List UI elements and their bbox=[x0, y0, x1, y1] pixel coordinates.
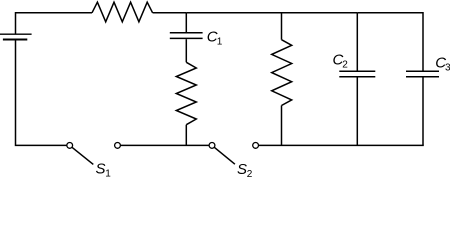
capacitor C1 top plate bbox=[170, 32, 203, 34]
wire: capacitor C2 to bottom rail bbox=[356, 77, 358, 145]
switch S1 fixed contact circle bbox=[67, 143, 73, 149]
svg-text:3: 3 bbox=[445, 63, 450, 74]
capacitor C3 top plate bbox=[406, 70, 439, 72]
wire: battery positive up to top-left corner and right to resistor R1 bbox=[16, 13, 93, 34]
label S2 bbox=[237, 161, 253, 180]
resistor R1 (top horizontal) bbox=[92, 2, 153, 22]
switch S2 blade (open) bbox=[214, 147, 235, 164]
wire: switch S2 terminal to bottom-right corner (bottom rail with R2 and C2 junctions) bbox=[259, 144, 424, 146]
switch S2 fixed contact circle bbox=[209, 143, 215, 149]
wire: node A down to capacitor C1 bbox=[185, 13, 187, 32]
capacitor C2 bottom plate bbox=[339, 76, 375, 78]
svg-text:S: S bbox=[96, 161, 106, 178]
wire: switch S1 terminal to switch S2 contact (bottom rail with R3 junction) bbox=[120, 144, 209, 146]
svg-text:1: 1 bbox=[217, 37, 223, 48]
wire: resistor R2 to bottom rail bbox=[281, 106, 283, 146]
wire: battery negative down to bottom-left corner and right to switch S1 bbox=[16, 40, 67, 145]
label C2 bbox=[333, 52, 349, 71]
svg-text:2: 2 bbox=[247, 169, 253, 177]
wire: node A to node B (top rail) bbox=[186, 12, 281, 14]
battery B1 short plate bbox=[3, 39, 27, 41]
switch S1 blade (open) bbox=[72, 147, 93, 164]
svg-text:S: S bbox=[237, 161, 247, 177]
wire: capacitor C3 to bottom-right corner bbox=[422, 77, 424, 145]
wire: resistor R1 to node A bbox=[153, 12, 187, 14]
wire: node B to node C (top rail) bbox=[282, 12, 358, 14]
wire: node C to top-right corner down to capacitor C3 bbox=[357, 13, 423, 71]
capacitor C1 bottom plate bbox=[170, 37, 203, 39]
capacitor C2 top plate bbox=[339, 70, 375, 72]
label C3 bbox=[435, 55, 450, 74]
battery B1 long plate bbox=[0, 33, 32, 35]
capacitor C3 bottom plate bbox=[406, 76, 439, 78]
switch S1 right terminal circle bbox=[115, 143, 121, 149]
wire: node C down to capacitor C2 bbox=[356, 13, 358, 71]
switch S2 right terminal circle bbox=[253, 143, 259, 149]
resistor R3 (middle vertical) bbox=[176, 62, 196, 124]
wire: resistor R3 to bottom rail junction bbox=[185, 125, 187, 146]
svg-text:1: 1 bbox=[105, 169, 111, 178]
wire: capacitor C1 to resistor R3 bbox=[185, 39, 187, 62]
wire: node B down to resistor R2 bbox=[281, 13, 283, 40]
label S1 bbox=[96, 161, 112, 180]
label C1 bbox=[207, 29, 223, 48]
resistor R2 (right vertical) bbox=[272, 40, 292, 106]
svg-text:2: 2 bbox=[342, 60, 348, 71]
